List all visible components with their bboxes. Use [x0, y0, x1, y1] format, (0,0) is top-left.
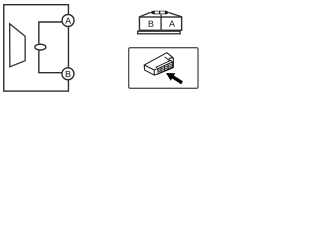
- speaker cone trapezoid: [10, 24, 26, 67]
- mating end pin row line 2: [158, 65, 172, 72]
- harness connector housing silhouette: [144, 53, 173, 75]
- harness view frame: [129, 48, 198, 89]
- connector top right slant: [169, 13, 182, 17]
- connector cavity divider: [160, 15, 162, 31]
- housing end transition edge: [165, 57, 170, 61]
- mating end block top face: [156, 60, 172, 69]
- connector base strip: [138, 31, 181, 34]
- lock bar right hole: [160, 11, 165, 13]
- wire to terminal B: [39, 49, 62, 73]
- mating end block front face: [158, 62, 173, 74]
- cavity A label: [169, 21, 175, 27]
- connector top left slant: [139, 13, 149, 17]
- terminal B label: [66, 71, 71, 77]
- housing end cap face: [169, 58, 173, 67]
- housing front vertical edge: [153, 70, 155, 75]
- mating end pin column tick 1: [160, 67, 162, 72]
- pointer arrow: [166, 73, 183, 84]
- terminal B circle: [62, 68, 74, 80]
- cavity B label: [149, 21, 154, 27]
- speaker enclosure box: [4, 5, 69, 91]
- wire to terminal A: [39, 22, 62, 45]
- speaker driver ellipse: [35, 44, 46, 50]
- mating end pin row line 1: [158, 64, 173, 71]
- connector front view: cavity body: [139, 17, 181, 30]
- terminal A circle: [62, 15, 74, 27]
- connector lock bar: [150, 11, 170, 14]
- housing top-left edge to front corner: [144, 65, 156, 70]
- mating end pin column tick 2: [163, 66, 165, 71]
- mating end pin column tick 3: [167, 64, 169, 69]
- terminal A label: [65, 18, 71, 24]
- lock bar left hole: [155, 11, 159, 13]
